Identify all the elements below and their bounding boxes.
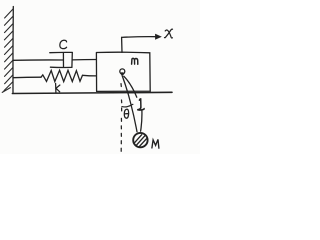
dashed vertical reference [120, 84, 123, 152]
ground line [12, 92, 172, 93]
angle arc [122, 104, 133, 107]
damper label C [60, 40, 67, 48]
mass label m [132, 58, 138, 64]
mass block m [96, 52, 150, 91]
spring left lead [13, 76, 41, 79]
mass block bottom edge [97, 90, 151, 92]
angle label theta [124, 109, 128, 118]
pendulum rod stroke 2 lower [141, 111, 142, 132]
x-axis label x [165, 29, 173, 38]
damper cylinder right wall [71, 53, 73, 68]
damper rod left [13, 59, 63, 61]
pendulum bob M [133, 133, 147, 147]
x-axis arrowhead [156, 35, 161, 40]
ground hatch [2, 88, 10, 93]
wall hatching [2, 9, 13, 92]
bob hatching [135, 135, 146, 147]
bob label M [152, 139, 159, 148]
pendulum pivot [120, 69, 125, 74]
spring k zigzag [41, 70, 83, 81]
x-axis arrow [122, 36, 158, 39]
damper cylinder top [50, 51, 73, 53]
damper piston [62, 53, 64, 66]
spring right lead [83, 74, 97, 77]
x-axis vertical [121, 37, 123, 52]
damper rod right [72, 59, 96, 61]
spring label k [56, 83, 60, 92]
pendulum rod stroke 2 upper [124, 76, 137, 97]
damper cylinder bottom [50, 66, 72, 68]
rod length label l [138, 99, 144, 110]
pendulum rod stroke 1 [122, 76, 137, 132]
pivot ink blob [121, 73, 125, 75]
wall [12, 7, 14, 93]
